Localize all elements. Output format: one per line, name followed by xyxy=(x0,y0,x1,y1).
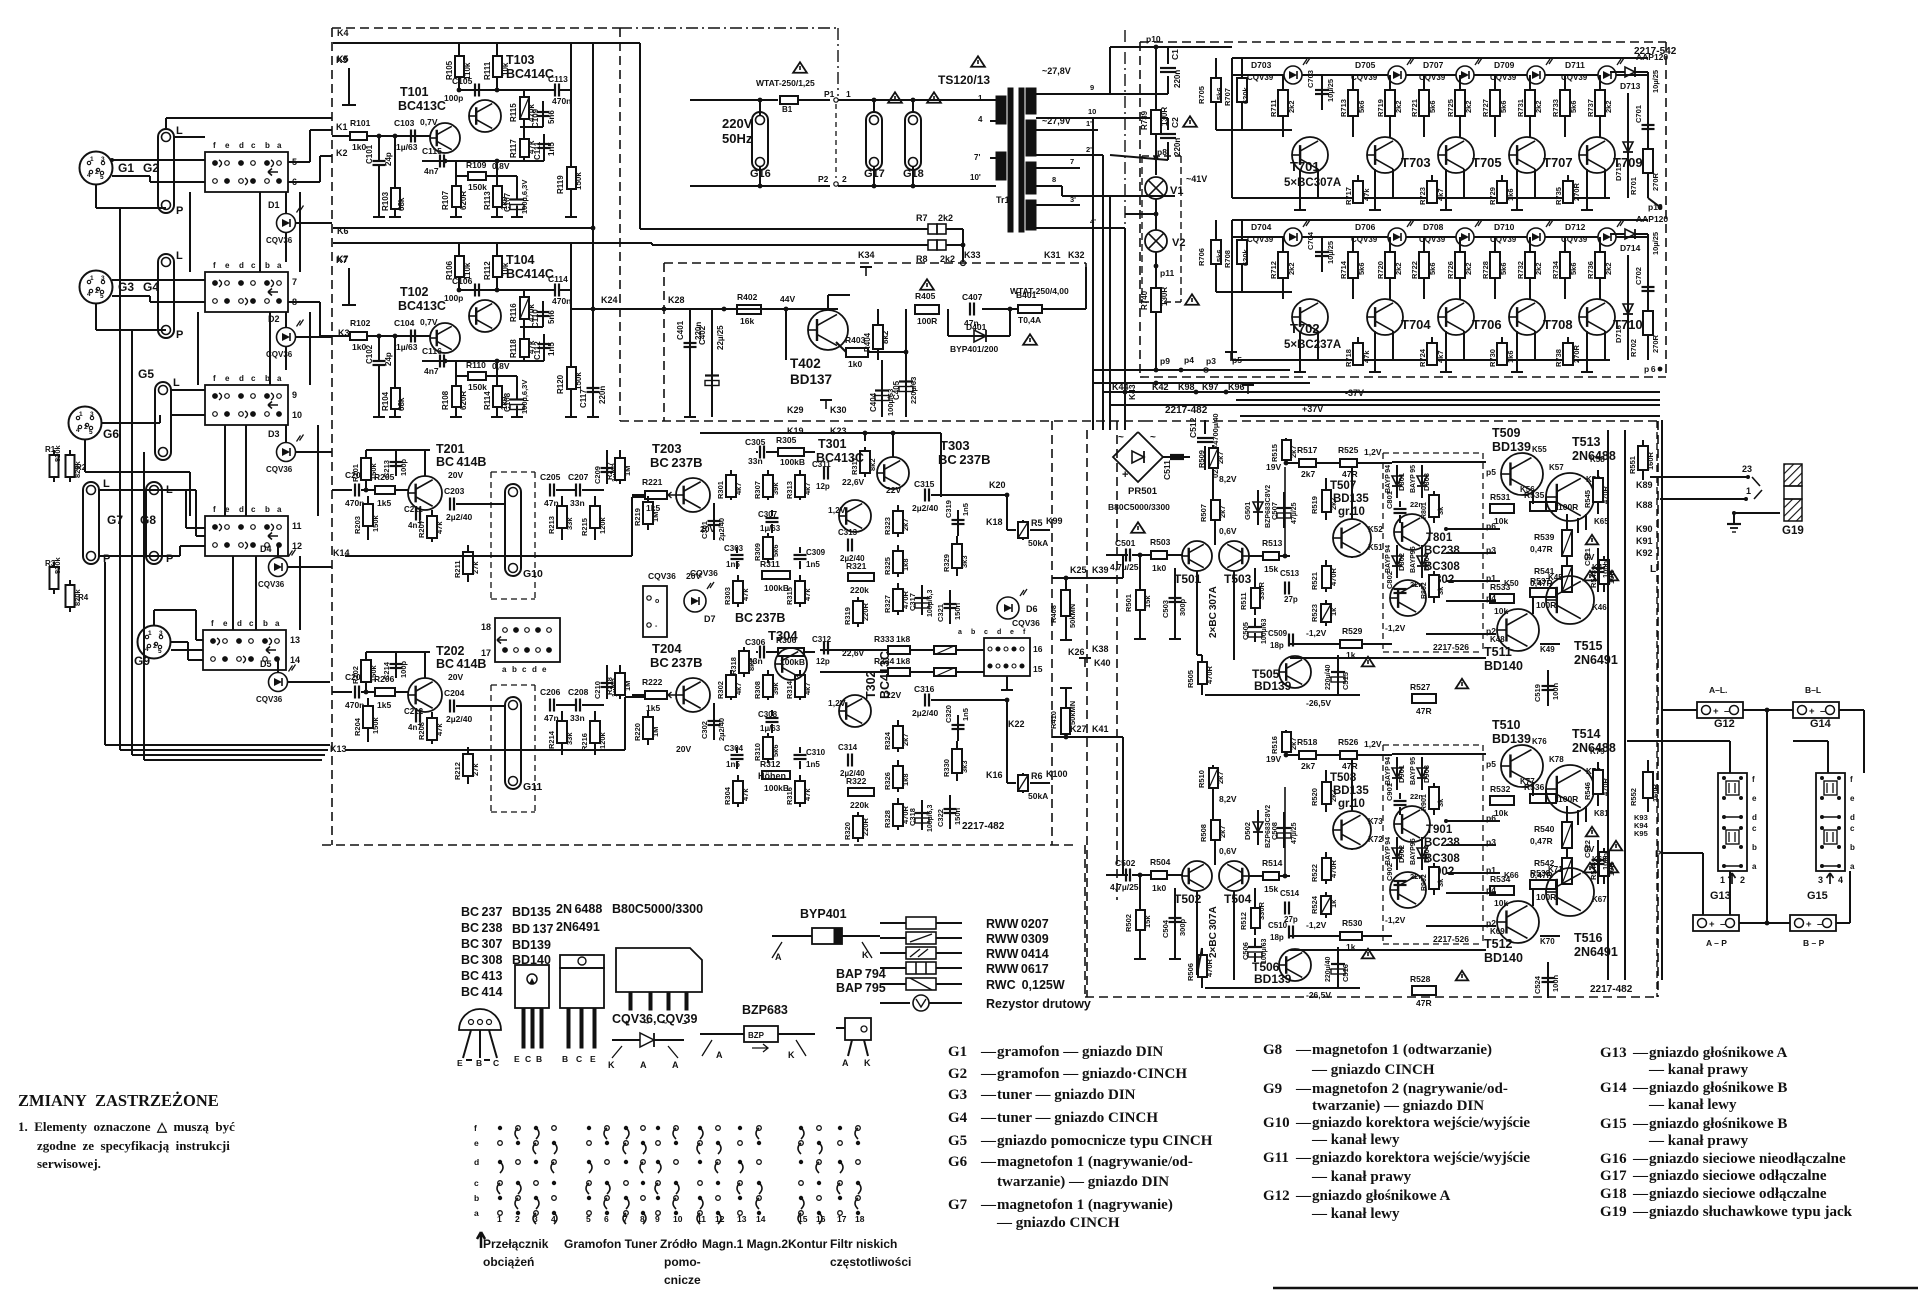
resistor R711 2k2 xyxy=(1282,75,1284,137)
wire K13 to T204 xyxy=(345,749,625,751)
wire led link xyxy=(1302,236,1388,238)
svg-text:R109: R109 xyxy=(466,160,487,170)
svg-text:R726: R726 xyxy=(1446,261,1455,279)
resistor R543 10R xyxy=(1603,556,1605,592)
resistor R1 820k xyxy=(53,450,55,482)
switch S5 contacts 13-14 xyxy=(203,630,286,670)
resistor R319 220R xyxy=(857,597,859,627)
svg-text:7: 7 xyxy=(292,277,297,287)
svg-text:C511: C511 xyxy=(1162,460,1172,480)
svg-text:D5: D5 xyxy=(260,659,272,669)
svg-text:a: a xyxy=(474,1208,479,1218)
resistor R322 220k xyxy=(848,788,874,796)
svg-text:1k0: 1k0 xyxy=(848,359,862,369)
svg-text:150k: 150k xyxy=(574,172,583,190)
svg-text:R405: R405 xyxy=(915,291,936,301)
svg-text:magnetofon 1 (odtwarzanie): magnetofon 1 (odtwarzanie) xyxy=(1312,1042,1492,1058)
capacitor C515 220u/40 xyxy=(1337,655,1339,695)
wire right rail xyxy=(570,243,572,290)
capacitor C301 2u2/40 xyxy=(713,503,715,540)
svg-text:K49: K49 xyxy=(1540,645,1555,654)
wire switch column links xyxy=(299,192,301,272)
svg-text:R322: R322 xyxy=(846,776,867,786)
svg-text:R520: R520 xyxy=(1310,788,1319,806)
wire K6 bus xyxy=(333,227,593,229)
wire input xyxy=(332,691,352,693)
svg-text:R552: R552 xyxy=(1629,788,1638,806)
diode D715 xyxy=(1627,93,1629,198)
svg-text:K99: K99 xyxy=(1046,516,1063,526)
svg-text:G14: G14 xyxy=(1810,718,1832,730)
resistor R515 2k7 xyxy=(1285,438,1287,464)
svg-text:BAYP 95: BAYP 95 xyxy=(1410,757,1417,785)
svg-text:R410: R410 xyxy=(1049,711,1058,729)
svg-text:R536: R536 xyxy=(1524,782,1545,792)
svg-text:+: + xyxy=(1709,919,1715,930)
svg-text:R315: R315 xyxy=(785,587,794,605)
switch S1 contacts 5-6 xyxy=(205,152,288,192)
capacitor C306 33n xyxy=(759,646,761,659)
svg-text:R502: R502 xyxy=(1124,914,1133,932)
svg-text:1,2V: 1,2V xyxy=(1364,739,1382,749)
svg-text:R504: R504 xyxy=(1150,857,1171,867)
wire input K3 xyxy=(332,335,350,337)
legend RWW 0617 xyxy=(880,967,906,969)
wire K3 stub xyxy=(288,301,320,303)
svg-text:C209: C209 xyxy=(593,466,602,484)
transistor T506 BD139 xyxy=(1279,949,1311,981)
svg-text:D708: D708 xyxy=(1423,222,1444,232)
resistor R526 47R xyxy=(1340,751,1357,759)
svg-text:D707: D707 xyxy=(1423,60,1444,70)
wire K4 feed xyxy=(571,42,640,44)
wire K1 stub xyxy=(288,161,310,163)
svg-text:100p: 100p xyxy=(444,93,463,103)
capacitor C902 22n xyxy=(1394,880,1407,882)
svg-text:220µ/40: 220µ/40 xyxy=(1325,664,1332,690)
svg-text:o: o xyxy=(655,598,659,605)
svg-text:150n: 150n xyxy=(953,602,962,620)
svg-text:19V: 19V xyxy=(1266,754,1281,764)
svg-text:12: 12 xyxy=(715,1214,725,1224)
svg-text:BC 414B: BC 414B xyxy=(436,455,486,469)
resistor R206 1k5 xyxy=(375,688,395,696)
svg-text:R702: R702 xyxy=(1629,339,1638,357)
svg-text:2N6491: 2N6491 xyxy=(1574,945,1618,959)
capacitor C503 300p xyxy=(1174,568,1176,639)
svg-text:K4: K4 xyxy=(337,28,349,38)
svg-text:K23: K23 xyxy=(830,426,847,436)
transistor T508 xyxy=(1333,811,1371,849)
capacitor C322 150n xyxy=(949,795,951,829)
svg-text:CQV36: CQV36 xyxy=(648,571,676,581)
svg-text:T302: T302 xyxy=(864,670,878,699)
svg-text:C317: C317 xyxy=(908,593,917,611)
wire row top bus xyxy=(1232,57,1648,59)
svg-text:C107: C107 xyxy=(503,192,512,212)
resistor R510 2k7 slash xyxy=(1212,765,1214,820)
svg-text:CQV36: CQV36 xyxy=(1012,618,1040,628)
wire trans emitter xyxy=(1604,331,1606,360)
svg-text:R108: R108 xyxy=(441,390,450,410)
legend rezystor drutowy xyxy=(880,1002,910,1004)
svg-text:K52: K52 xyxy=(1368,525,1383,534)
svg-text:4,7µ/25: 4,7µ/25 xyxy=(1110,562,1139,572)
svg-text:3: 3 xyxy=(1818,875,1823,885)
svg-text:C314: C314 xyxy=(838,743,858,752)
wire G12-G14 xyxy=(1743,709,1793,711)
svg-text:p4: p4 xyxy=(1184,355,1194,365)
zener D502 BZP683C8V2 xyxy=(1257,810,1259,845)
svg-text:5n6: 5n6 xyxy=(547,310,556,324)
svg-text:100n: 100n xyxy=(1551,974,1560,992)
svg-text:130R: 130R xyxy=(1160,287,1169,306)
svg-text:R712: R712 xyxy=(1269,261,1278,279)
svg-text:4: 4 xyxy=(87,291,91,298)
svg-text:BC 237B: BC 237B xyxy=(650,455,702,470)
svg-text:C519: C519 xyxy=(1533,684,1542,702)
svg-text:— kanał lewy: — kanał lewy xyxy=(1648,1097,1737,1113)
svg-text:gniazdo korektora wejście/wyjś: gniazdo korektora wejście/wyjście xyxy=(1312,1150,1530,1166)
svg-text:R802: R802 xyxy=(1421,582,1428,599)
svg-text:100µ/63: 100µ/63 xyxy=(1261,938,1268,964)
resistor R109 150k xyxy=(468,172,486,180)
resistor R202 150k xyxy=(365,652,367,692)
svg-text:C510: C510 xyxy=(1268,921,1288,930)
svg-text:C516: C516 xyxy=(1341,964,1350,982)
resistor R215 120k xyxy=(594,496,596,540)
svg-text:24p: 24p xyxy=(384,352,393,366)
capacitor C319 1n5 xyxy=(957,510,959,536)
svg-text:1': 1' xyxy=(1086,119,1092,128)
svg-text:1k6: 1k6 xyxy=(1506,188,1515,201)
zener D501 BZP683C8V2 xyxy=(1257,490,1259,525)
svg-text:T901: T901 xyxy=(1426,824,1453,836)
svg-text:— kanał prawy: — kanał prawy xyxy=(1648,1133,1749,1149)
svg-text:R714: R714 xyxy=(1339,260,1348,279)
svg-text:8k2: 8k2 xyxy=(881,330,890,344)
svg-text:B–L: B–L xyxy=(1805,685,1821,695)
svg-text:magnetofon 2 (nagrywanie/od-: magnetofon 2 (nagrywanie/od- xyxy=(1312,1081,1508,1097)
svg-text:0,7V: 0,7V xyxy=(420,317,438,327)
svg-text:1: 1 xyxy=(90,156,94,163)
resistor R519 2k7 xyxy=(1325,478,1327,520)
svg-text:R507: R507 xyxy=(1199,504,1208,522)
svg-text:R323: R323 xyxy=(883,517,892,535)
resistor R902 3k xyxy=(1433,863,1435,895)
svg-text:C206: C206 xyxy=(540,687,561,697)
wire D4 connections xyxy=(277,546,279,558)
svg-text:13: 13 xyxy=(290,635,300,645)
capacitor C305 33n xyxy=(759,446,761,459)
svg-text:D401: D401 xyxy=(966,322,987,332)
svg-text:47k: 47k xyxy=(803,788,812,801)
wire trans gnd xyxy=(1586,169,1588,210)
svg-text:R511: R511 xyxy=(1239,592,1248,610)
svg-text:RWW 0207: RWW 0207 xyxy=(986,917,1049,931)
resistor R408 50kMN xyxy=(1065,578,1067,640)
svg-text:1k0: 1k0 xyxy=(1152,883,1166,893)
svg-text:R111: R111 xyxy=(483,61,492,80)
svg-text:R221: R221 xyxy=(642,477,663,487)
svg-text:0,47R: 0,47R xyxy=(1530,544,1553,554)
svg-text:G6: G6 xyxy=(103,427,119,441)
svg-text:K33: K33 xyxy=(964,250,981,260)
wire trans emitter xyxy=(1392,331,1394,360)
pot R6 50kA xyxy=(1007,782,1016,784)
svg-text:gniazdo sieciowe odłączalne: gniazdo sieciowe odłączalne xyxy=(1649,1186,1827,1202)
svg-text:D712: D712 xyxy=(1565,222,1586,232)
svg-text:c: c xyxy=(1850,824,1855,833)
transistor T103 xyxy=(469,100,501,132)
svg-text:A–L.: A–L. xyxy=(1709,685,1727,695)
svg-text:330R: 330R xyxy=(1257,581,1266,600)
svg-text:6: 6 xyxy=(604,1214,609,1224)
svg-text:R327: R327 xyxy=(883,595,892,613)
svg-text:R523: R523 xyxy=(1310,604,1319,622)
svg-text:3k3: 3k3 xyxy=(960,760,969,773)
svg-text:K90: K90 xyxy=(1636,524,1653,534)
svg-text:0,47R: 0,47R xyxy=(1530,836,1553,846)
svg-text:22µ/25: 22µ/25 xyxy=(716,325,725,350)
svg-text:2: 2 xyxy=(1740,875,1745,885)
matrix arrow xyxy=(477,1232,485,1248)
svg-text:470R: 470R xyxy=(1329,567,1338,586)
svg-text:K89: K89 xyxy=(1636,480,1653,490)
svg-text:K16: K16 xyxy=(986,770,1003,780)
transistor T510 xyxy=(1501,745,1543,787)
svg-text:16: 16 xyxy=(816,1214,826,1224)
svg-text:2: 2 xyxy=(515,1214,520,1224)
svg-text:C504: C504 xyxy=(1161,919,1170,938)
svg-text:R509: R509 xyxy=(1197,450,1206,468)
svg-text:C310: C310 xyxy=(806,748,826,757)
svg-text:R540: R540 xyxy=(1534,824,1555,834)
svg-text:220k: 220k xyxy=(850,800,869,810)
resistor R508 2k7 xyxy=(1214,820,1216,842)
svg-text:G18: G18 xyxy=(1600,1186,1627,1202)
svg-text:100n: 100n xyxy=(1551,682,1560,700)
svg-text:4: 4 xyxy=(551,1214,556,1224)
svg-text:b: b xyxy=(263,619,268,628)
svg-text:47k: 47k xyxy=(435,723,444,736)
connector G10 xyxy=(491,471,535,473)
resistor R312 100kB xyxy=(762,771,790,779)
svg-text:TS120/13: TS120/13 xyxy=(938,73,990,87)
svg-text:270R: 270R xyxy=(1651,172,1660,191)
svg-text:3k: 3k xyxy=(1436,586,1445,595)
svg-text:T707: T707 xyxy=(1543,155,1573,170)
svg-text:C211: C211 xyxy=(404,505,423,514)
diode D401 BYP401/200 xyxy=(947,309,949,336)
svg-text:R220: R220 xyxy=(633,723,642,741)
svg-text:R307: R307 xyxy=(753,481,762,499)
capacitor C113 470n xyxy=(554,84,556,97)
svg-text:2N6491: 2N6491 xyxy=(1574,653,1618,667)
wire node2 xyxy=(520,326,543,328)
svg-text:R218: R218 xyxy=(605,677,614,695)
svg-text:5k6: 5k6 xyxy=(1428,262,1437,275)
resistor R222 1k5 xyxy=(645,691,667,699)
svg-text:—: — xyxy=(1632,1186,1649,1202)
resistor R207 47k xyxy=(431,510,433,542)
resistor R542 0,47R xyxy=(1562,858,1572,884)
wire C407 node xyxy=(982,308,1018,310)
svg-text:D502: D502 xyxy=(1243,822,1252,840)
svg-text:1M: 1M xyxy=(623,681,632,691)
wire bottom right long xyxy=(1273,1287,1918,1290)
svg-text:2: 2 xyxy=(95,288,99,295)
svg-text:C704: C704 xyxy=(1306,231,1315,250)
resistor R313 4k7 xyxy=(799,470,801,500)
svg-text:160R: 160R xyxy=(1646,451,1655,470)
svg-text:4n7: 4n7 xyxy=(424,366,439,376)
svg-text:R711: R711 xyxy=(1269,99,1278,117)
svg-text:R723: R723 xyxy=(1418,187,1427,205)
resistor R516 2k7 xyxy=(1285,730,1287,756)
svg-text:~27,8V: ~27,8V xyxy=(1042,66,1071,76)
wire speaker links xyxy=(1662,709,1697,711)
svg-text:T203: T203 xyxy=(652,441,682,456)
svg-text:R6: R6 xyxy=(1031,771,1043,781)
svg-text:D714: D714 xyxy=(1620,243,1641,253)
capacitor C109 5n6 xyxy=(542,101,544,127)
wire R706 link xyxy=(1216,291,1242,293)
svg-text:150k: 150k xyxy=(371,716,380,734)
svg-text:a: a xyxy=(502,665,507,674)
svg-text:R732: R732 xyxy=(1516,261,1525,279)
svg-text:100R: 100R xyxy=(1558,794,1578,804)
svg-text:47k: 47k xyxy=(741,788,750,801)
resistor R523 xyxy=(1325,600,1327,626)
transistor T706 xyxy=(1438,299,1474,335)
svg-text:D711: D711 xyxy=(1565,60,1585,70)
svg-text:K27: K27 xyxy=(1070,724,1087,734)
diode D803 xyxy=(1421,465,1423,498)
resistor R708 620k xyxy=(1241,220,1243,292)
resistor R302 4k7 xyxy=(730,670,732,700)
resistor R404 8k2 xyxy=(877,309,879,360)
svg-text:3: 3 xyxy=(533,1214,538,1224)
svg-text:2×BC 307A: 2×BC 307A xyxy=(1208,586,1219,638)
resistor R540 0,47R xyxy=(1562,822,1572,848)
svg-text:L: L xyxy=(1650,564,1656,575)
wire p4 link xyxy=(1446,892,1496,894)
wire input pair xyxy=(1196,571,1198,655)
svg-text:18p: 18p xyxy=(1270,641,1284,650)
resistor R729 1k6 xyxy=(1501,175,1503,198)
svg-text:R107: R107 xyxy=(441,190,450,210)
svg-text:150k: 150k xyxy=(468,382,487,392)
svg-text:E: E xyxy=(590,1054,596,1064)
transistor T402 BD137 xyxy=(808,310,848,350)
wire K22 drop xyxy=(1006,730,1008,783)
svg-text:K50: K50 xyxy=(1504,579,1519,588)
diode D801 xyxy=(1396,465,1398,498)
resistor R801 3k xyxy=(1433,491,1435,523)
svg-text:44V: 44V xyxy=(780,294,795,304)
transistor T512 xyxy=(1497,901,1539,943)
capacitor C209 1u/63 xyxy=(606,450,608,484)
svg-text:R211: R211 xyxy=(453,560,462,578)
svg-text:22V: 22V xyxy=(886,690,901,700)
svg-text:D904: D904 xyxy=(1422,844,1431,863)
matrix contacts xyxy=(498,1126,502,1130)
speaker switch A xyxy=(1718,773,1747,871)
wire D2 connections xyxy=(285,312,287,328)
capacitor C115 4n7 xyxy=(439,155,441,168)
resistor R541 0,47R xyxy=(1562,566,1572,592)
wire p2 link xyxy=(1426,925,1496,927)
svg-text:1µ/63: 1µ/63 xyxy=(396,142,418,152)
svg-text:e: e xyxy=(225,261,230,270)
resistor R309 5k6 xyxy=(767,533,769,563)
svg-text:BC 413: BC 413 xyxy=(461,969,502,983)
svg-text:14: 14 xyxy=(290,655,300,665)
svg-text:C101: C101 xyxy=(365,144,374,164)
svg-text:330R: 330R xyxy=(1257,901,1266,920)
svg-text:—: — xyxy=(1295,1188,1312,1204)
capacitor C321 150n xyxy=(949,590,951,624)
lamp V1 xyxy=(1145,177,1167,199)
capacitor C901 22n xyxy=(1394,800,1407,802)
svg-text:R701: R701 xyxy=(1629,177,1638,195)
svg-text:C: C xyxy=(493,1058,499,1068)
svg-text:R706: R706 xyxy=(1197,248,1206,266)
svg-text:R318: R318 xyxy=(729,657,738,675)
resistor R311 100kB xyxy=(762,571,790,579)
resistor R325 1k8 xyxy=(897,545,899,577)
svg-text:R222: R222 xyxy=(642,677,663,687)
svg-text:470n: 470n xyxy=(552,296,571,306)
svg-text:2k2: 2k2 xyxy=(1534,100,1543,113)
svg-text:22,6V: 22,6V xyxy=(842,477,865,487)
svg-text:cnicze: cnicze xyxy=(664,1273,701,1287)
svg-text:R301: R301 xyxy=(716,481,725,499)
svg-text:R112: R112 xyxy=(483,261,492,280)
svg-text:47k: 47k xyxy=(741,588,750,601)
svg-text:19V: 19V xyxy=(1266,462,1281,472)
capacitor C2 220n xyxy=(1160,133,1176,135)
svg-text:3k: 3k xyxy=(1436,798,1445,807)
wire trans emitter xyxy=(1317,169,1319,198)
resistor R702 270R xyxy=(1643,311,1653,335)
svg-text:1k8: 1k8 xyxy=(901,558,910,571)
wire node xyxy=(367,335,431,337)
transistor T102 xyxy=(430,323,460,353)
svg-text:100µ,6,3V: 100µ,6,3V xyxy=(520,380,529,414)
svg-text:33n: 33n xyxy=(570,713,585,723)
svg-text:4: 4 xyxy=(1838,875,1843,885)
svg-text:1k: 1k xyxy=(1329,607,1338,616)
svg-text:C208: C208 xyxy=(568,687,589,697)
svg-text:120k: 120k xyxy=(598,731,607,749)
svg-text:47k: 47k xyxy=(1362,188,1371,201)
svg-text:a: a xyxy=(1752,862,1757,871)
svg-text:ZMIANY ZASTRZEŻONE: ZMIANY ZASTRZEŻONE xyxy=(18,1091,219,1110)
svg-text:BAYP 94: BAYP 94 xyxy=(1385,837,1392,865)
transistor T707 xyxy=(1509,137,1545,173)
svg-text:470n: 470n xyxy=(345,700,364,710)
wire p6 link xyxy=(1446,820,1500,822)
wire K14 to T203 xyxy=(345,555,632,557)
package TO-126 xyxy=(515,965,549,1008)
svg-text:K72: K72 xyxy=(1368,835,1383,844)
svg-text:2k7: 2k7 xyxy=(1218,505,1227,518)
svg-text:1µ/63: 1µ/63 xyxy=(760,724,781,733)
svg-text:CQV36,CQV39: CQV36,CQV39 xyxy=(612,1012,698,1026)
connector G4 CINCH xyxy=(158,254,174,338)
